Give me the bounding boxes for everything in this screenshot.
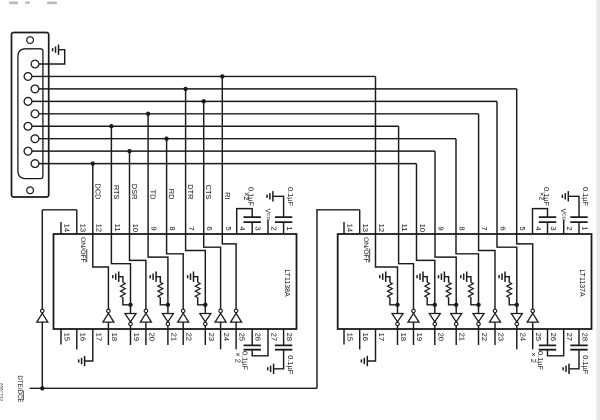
wire net 1 drop to pin 5 and jog to channel <box>222 76 236 309</box>
svg-text:RD: RD <box>167 189 176 200</box>
pin 16 stub <box>359 329 361 350</box>
ground receiver ch4 <box>439 272 445 282</box>
svg-text:11: 11 <box>400 224 409 232</box>
resistor ch7 <box>507 282 512 297</box>
svg-text:3: 3 <box>549 226 558 230</box>
junction dot net 1 at chip1 drop <box>220 74 224 78</box>
svg-text:23: 23 <box>497 333 506 341</box>
wire net 2 drop to pin 5 and jog to channel <box>517 89 533 309</box>
wire net 5 horizontal <box>32 125 399 127</box>
junction dot receiver input ch3 <box>433 303 437 307</box>
wire net 4 drop to pin 9 and jog to channel <box>148 114 168 314</box>
svg-text:2: 2 <box>565 226 574 230</box>
svg-text:ON/OFF: ON/OFF <box>79 237 86 263</box>
svg-text:RI: RI <box>223 192 232 199</box>
junction dot receiver input ch5 <box>476 303 480 307</box>
faint page artifact top-left <box>9 2 57 5</box>
svg-text:TD: TD <box>149 190 158 200</box>
svg-text:6: 6 <box>499 226 508 230</box>
svg-text:27: 27 <box>565 333 574 341</box>
svg-text:DSR: DSR <box>130 184 139 200</box>
svg-text:21: 21 <box>458 333 467 341</box>
svg-text:16: 16 <box>361 333 370 341</box>
svg-text:0.1µF: 0.1µF <box>581 187 590 207</box>
svg-text:3: 3 <box>254 226 263 230</box>
wire net 6 horizontal <box>39 138 456 140</box>
svg-text:DTR: DTR <box>186 184 195 199</box>
buffer channel 4 triangle <box>451 314 462 322</box>
svg-text:26: 26 <box>254 333 263 341</box>
connector mounting hole bottom <box>27 187 34 194</box>
pin 17 stub to ground <box>85 329 93 361</box>
svg-text:14: 14 <box>346 224 355 232</box>
buffer channel 6 triangle <box>490 313 501 322</box>
ground receiver ch5 <box>461 272 467 282</box>
pin 2 stub VCC <box>267 220 269 235</box>
svg-text:0.1µF: 0.1µF <box>581 355 590 375</box>
svg-text:1: 1 <box>581 226 590 230</box>
capacitor C2 0.1uF (pin 1 to VCC/gnd) <box>275 216 292 218</box>
connector pin circle 6 <box>24 122 32 130</box>
wire net 2 horizontal <box>39 88 517 90</box>
junction dot receiver input ch7 <box>515 303 519 307</box>
buffer channel 1 triangle <box>392 314 403 322</box>
connector pin circle 3 <box>31 85 39 93</box>
svg-text:23: 23 <box>207 333 216 341</box>
wire net 1 drop to pin 12 and jog to channel <box>376 76 398 313</box>
ground receiver ch1 <box>380 272 386 282</box>
svg-text:8: 8 <box>458 226 467 230</box>
connector mounting hole top <box>27 37 34 44</box>
svg-text:22: 22 <box>480 333 489 341</box>
svg-text:DCD: DCD <box>93 183 102 199</box>
svg-text:4: 4 <box>534 226 543 230</box>
wire net 2 drop to pin 7 and jog to channel <box>186 89 206 314</box>
junction dot net 4 at chip1 drop <box>146 112 150 116</box>
ground receiver ch2 <box>113 272 119 282</box>
svg-text:7: 7 <box>187 226 196 230</box>
svg-text:6: 6 <box>205 226 214 230</box>
svg-text:9: 9 <box>437 226 446 230</box>
ground receiver ch3 <box>417 272 423 282</box>
svg-text:13: 13 <box>78 224 87 232</box>
svg-text:28: 28 <box>285 333 294 341</box>
svg-text:28: 28 <box>581 333 590 341</box>
svg-text:19: 19 <box>415 333 424 341</box>
svg-text:18: 18 <box>399 333 408 341</box>
pin 2 stub VCC <box>563 220 565 235</box>
pin 15 stub <box>60 329 62 345</box>
capacitor C4 0.1uF (pin 28) <box>283 329 285 345</box>
svg-text:26: 26 <box>549 333 558 341</box>
svg-text:CTS: CTS <box>204 185 213 200</box>
svg-text:8: 8 <box>168 226 177 230</box>
svg-text:9: 9 <box>150 226 159 230</box>
resistor ch4 <box>158 282 163 297</box>
svg-text:0.1µF: 0.1µF <box>286 355 295 375</box>
svg-text:0.1µF: 0.1µF <box>241 351 250 371</box>
wire net 3 drop to pin 6 and jog to channel <box>497 101 517 313</box>
svg-text:22: 22 <box>185 333 194 341</box>
svg-text:0.1µF: 0.1µF <box>286 187 295 207</box>
junction dot net 2 at chip1 drop <box>183 87 187 91</box>
svg-text:18: 18 <box>110 333 119 341</box>
buffer channel 4 triangle <box>162 314 173 322</box>
buffer channel 5 triangle <box>473 314 484 322</box>
svg-text:12: 12 <box>94 224 103 232</box>
buffer channel 8 triangle <box>527 313 538 322</box>
junction dot net 6 at chip1 drop <box>164 137 168 141</box>
op-amp IC LT1137A body <box>338 234 592 329</box>
buffer channel 5 triangle <box>178 313 189 322</box>
svg-text:15: 15 <box>63 333 72 341</box>
capacitor C2 0.1uF (pin 1 to VCC/gnd) <box>570 216 587 218</box>
pin 13 stub (ON/OFF) <box>359 210 361 234</box>
connector pin circle 1 <box>31 60 39 68</box>
svg-text:4: 4 <box>238 226 247 230</box>
svg-text:11: 11 <box>113 224 122 232</box>
wire net 4 drop to pin 7 and jog to channel <box>479 114 495 309</box>
pin 13 stub (ON/OFF) <box>76 210 78 234</box>
wire net 7 drop to pin 10 and jog to channel <box>130 151 146 309</box>
junction dot receiver input ch4 <box>166 303 170 307</box>
wire net 6 drop to pin 8 and jog to channel <box>167 139 184 310</box>
svg-text:14: 14 <box>63 224 72 232</box>
capacitor C4 0.1uF (pin 28) <box>578 329 580 345</box>
svg-text:20: 20 <box>436 333 445 341</box>
pin 14 stub <box>60 222 62 234</box>
wire net 8 horizontal <box>39 163 417 165</box>
svg-text:13: 13 <box>361 224 370 232</box>
svg-text:21: 21 <box>169 333 178 341</box>
svg-text:19: 19 <box>132 333 141 341</box>
resistor ch2 <box>121 282 126 297</box>
resistor ch3 <box>425 282 430 297</box>
svg-text:×2: ×2 <box>242 192 251 200</box>
ground top bypass <box>267 191 273 201</box>
capacitor C3 0.1uF x2 (pins 26-27) <box>547 329 549 345</box>
buffer channel 7 triangle <box>215 313 226 322</box>
buffer channel 3 triangle <box>429 314 440 322</box>
buffer channel 3 triangle <box>140 313 151 322</box>
junction dot net 8 at chip1 drop <box>91 161 95 165</box>
connector pin circle 9 <box>31 160 39 168</box>
capacitor C3 0.1uF x2 (pins 26-27) <box>251 329 253 345</box>
svg-text:ON/OFF: ON/OFF <box>362 237 369 263</box>
resistor ch6 <box>195 282 200 297</box>
svg-text:7: 7 <box>480 226 489 230</box>
wire net 3 drop to pin 6 and jog to channel <box>204 101 221 309</box>
buffer channel 8 triangle <box>231 313 242 322</box>
buffer channel 1 triangle <box>103 313 114 322</box>
svg-text:2: 2 <box>270 226 279 230</box>
page edge shading <box>596 0 600 420</box>
wire to chip1 ON/OFF pin 13 <box>42 209 77 211</box>
wire pin1 to ground <box>39 50 65 64</box>
wire net 7 drop to pin 9 and jog to channel <box>435 151 456 313</box>
pin 17 stub to ground <box>367 329 375 361</box>
junction dot DTE/DCE <box>40 386 44 390</box>
svg-text:×2: ×2 <box>537 192 546 200</box>
svg-text:24: 24 <box>518 333 527 341</box>
ground pin17 <box>79 356 85 366</box>
svg-text:CC: CC <box>561 213 567 221</box>
connector pin circle 7 <box>31 135 39 143</box>
junction dot receiver input ch2 <box>128 303 132 307</box>
buffer channel 2 triangle <box>125 314 136 322</box>
svg-text:27: 27 <box>270 333 279 341</box>
svg-text:24: 24 <box>222 333 231 341</box>
svg-text:15: 15 <box>346 333 355 341</box>
ground receiver ch6 <box>188 272 194 282</box>
pin 16 stub <box>76 329 78 350</box>
pin 15 stub <box>343 329 345 345</box>
pin 14 stub <box>343 222 345 234</box>
ground bottom bypass <box>268 364 274 374</box>
buffer channel 7 triangle <box>511 314 522 322</box>
svg-text:20: 20 <box>147 333 156 341</box>
junction dot receiver input ch6 <box>203 303 207 307</box>
ground connector shell <box>53 45 59 55</box>
wire net 6 drop to pin 8 and jog to channel <box>456 139 479 314</box>
op-amp IC LT1138A body <box>54 234 297 329</box>
junction dot net 7 at chip1 drop <box>127 149 131 153</box>
wire net 5 drop to pin 11 and jog to channel <box>111 126 130 313</box>
svg-text:DTE/DCE: DTE/DCE <box>16 375 23 402</box>
svg-text:1: 1 <box>285 226 294 230</box>
svg-text:RTS: RTS <box>112 185 121 200</box>
buffer channel 2 triangle <box>408 313 419 322</box>
connector pin circle 5 <box>31 110 39 118</box>
junction dot net 3 at chip1 drop <box>202 99 206 103</box>
inverter U3 on DTE/DCE <box>41 322 43 388</box>
wire riser to chip2 ON/OFF <box>317 210 360 388</box>
connector J1 DB9 shell <box>12 33 49 198</box>
junction dot receiver input ch1 <box>395 303 399 307</box>
wire DTE/DCE rail <box>30 387 317 389</box>
resistor ch1 <box>388 282 393 297</box>
svg-text:10: 10 <box>418 224 427 232</box>
svg-text:17: 17 <box>377 333 386 341</box>
svg-text:LT1138A: LT1138A <box>283 269 290 297</box>
ground bottom bypass <box>563 364 569 374</box>
svg-text:LT1137A: LT1137A <box>578 269 585 297</box>
wire net 1 horizontal <box>32 75 376 77</box>
svg-text:16: 16 <box>78 333 87 341</box>
junction dot receiver input ch4 <box>454 303 458 307</box>
capacitor C1 0.1uF x2 (pins 4-3) <box>533 209 548 234</box>
connector pin circle 2 <box>24 73 32 81</box>
svg-text:5: 5 <box>518 226 527 230</box>
ground receiver ch4 <box>150 272 156 282</box>
svg-text:10: 10 <box>131 224 140 232</box>
junction dot net 5 at chip1 drop <box>109 124 113 128</box>
connector D face outline <box>18 49 43 179</box>
wire net 4 horizontal <box>39 113 479 115</box>
wire net 8 drop to pin 12 and jog to channel <box>93 164 109 310</box>
svg-text:AN57 F13: AN57 F13 <box>0 383 5 402</box>
svg-text:25: 25 <box>534 333 543 341</box>
connector pin circle 4 <box>24 97 32 105</box>
svg-text:0.1µF: 0.1µF <box>536 351 545 371</box>
wire net 7 horizontal <box>32 150 435 152</box>
svg-text:CC: CC <box>265 213 271 221</box>
connector pin circle 8 <box>24 147 32 155</box>
wire net 3 horizontal <box>32 100 497 102</box>
ground pin17 <box>361 356 367 366</box>
resistor ch5 <box>469 282 474 297</box>
wire net 8 drop to pin 10 and jog to channel <box>417 164 435 314</box>
svg-text:25: 25 <box>238 333 247 341</box>
ground top bypass <box>562 191 568 201</box>
capacitor C1 0.1uF x2 (pins 4-3) <box>237 209 253 234</box>
buffer channel 6 triangle <box>200 314 211 322</box>
svg-text:12: 12 <box>377 224 386 232</box>
resistor ch4 <box>446 282 451 297</box>
wire net 5 drop to pin 11 and jog to channel <box>399 126 414 309</box>
svg-text:5: 5 <box>224 226 233 230</box>
ground receiver ch7 <box>499 272 505 282</box>
svg-text:17: 17 <box>94 333 103 341</box>
